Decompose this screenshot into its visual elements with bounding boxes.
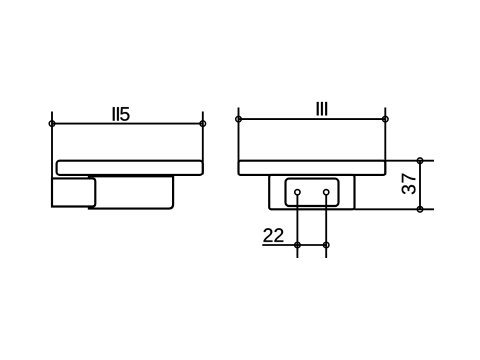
dim terminator circle left (22) <box>295 242 301 248</box>
screw hole right (front view) <box>324 190 329 195</box>
extension line right of 22 dim <box>325 195 327 258</box>
extension line bottom of 37 dim <box>355 208 435 210</box>
label 115 <box>113 107 130 121</box>
extension line left of 111 dim <box>238 108 240 175</box>
wall bracket (side view) <box>52 178 95 206</box>
label 111 <box>317 102 327 115</box>
mounting plate (front view) <box>286 179 339 206</box>
dimension line 37 <box>419 161 421 210</box>
dimension line 22 <box>262 244 326 246</box>
dimension line 111 <box>239 118 386 120</box>
label 22 <box>264 228 284 242</box>
body block (side view) <box>89 176 173 208</box>
dim terminator circle left (111) <box>236 116 242 122</box>
dim terminator circle right (111) <box>383 116 389 122</box>
extension line top of 37 dim <box>385 160 434 162</box>
dim terminator circle left (115) <box>49 121 55 127</box>
dim terminator circle top (37) <box>417 158 423 164</box>
dim terminator circle right (22) <box>323 242 329 248</box>
dim terminator circle right (115) <box>200 121 206 127</box>
label 37 <box>402 174 416 195</box>
extension line left of 22 dim <box>296 195 298 258</box>
screw hole left (front view) <box>295 190 300 195</box>
extension line right of 115 dim <box>202 112 204 175</box>
extension line right of 111 dim <box>384 108 386 175</box>
shelf plate (side view) <box>57 161 203 175</box>
dim terminator circle bottom (37) <box>417 207 423 213</box>
shelf plate (front view) <box>239 161 386 175</box>
bracket housing (front view) <box>269 175 354 209</box>
dimension line 115 <box>52 123 203 125</box>
extension line left of 115 dim <box>51 112 53 206</box>
